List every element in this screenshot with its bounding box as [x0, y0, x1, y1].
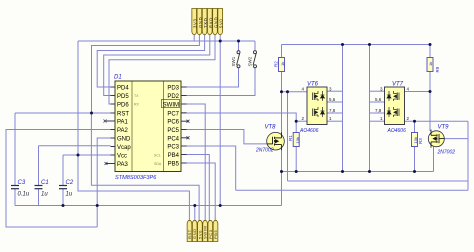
wire SW1 top lead	[238, 41, 240, 51]
wire R2 bottom lead	[281, 72, 283, 92]
wire R1 bottom lead	[295, 147, 297, 172]
wire VT7 pin3 stub	[370, 90, 385, 92]
wire PC7 line	[181, 113, 296, 121]
wire C1 lower lead	[38, 189, 40, 206]
node VT7 output bus	[368, 170, 371, 173]
IC left pin names	[117, 86, 131, 169]
connector XP1 top header	[192, 9, 224, 35]
svg-text:PC3: PC3	[167, 145, 179, 151]
svg-text:1u: 1u	[41, 192, 48, 198]
dual MOSFET VT7 AO4606	[385, 87, 405, 125]
svg-text:PC5: PC5	[167, 128, 179, 134]
pin PC6 no-connect cross	[187, 120, 190, 123]
svg-text:GND: GND	[117, 137, 131, 143]
svg-text:AO4606: AO4606	[299, 128, 319, 134]
resistor R9	[427, 58, 433, 72]
svg-text:STM8S003F3P6: STM8S003F3P6	[115, 175, 157, 181]
wire Vcap line C1	[39, 145, 111, 147]
node PA3 ground	[96, 204, 99, 207]
wire ground bus	[15, 205, 282, 207]
node VT7 supply tap	[368, 43, 371, 46]
capacitor C3	[11, 186, 19, 189]
wire VT9 gate column	[467, 121, 469, 190]
IC left pin stubs	[106, 87, 115, 164]
IC right pin stubs	[181, 87, 188, 163]
wire C1 upper lead	[38, 146, 40, 185]
wire VT6 pin2 stub	[296, 120, 307, 122]
wire C3 lower lead	[14, 189, 16, 206]
wire VT6 output stub 7-8	[327, 112, 343, 114]
svg-text:1u: 1u	[66, 192, 73, 198]
node header GND ground	[219, 204, 222, 207]
svg-text:10k: 10k	[295, 137, 300, 143]
wire VT6 pin1 stub	[327, 120, 343, 122]
wire Vcc descent to bottom connector pin3	[78, 155, 189, 223]
wire VT6 pin3 stub	[327, 90, 343, 92]
wire Vcc riser	[77, 41, 79, 155]
svg-text:TX: TX	[134, 94, 139, 98]
wire Vcc line C2	[63, 154, 111, 156]
wire PB5 descent to pin6	[181, 163, 215, 223]
wire top supply bus	[282, 44, 431, 46]
connector XP2 bottom header	[187, 220, 218, 241]
node VT6 supply tap	[341, 43, 344, 46]
pin PA1 no-connect cross	[104, 120, 107, 123]
wire VT8 source to ground bus	[281, 150, 283, 206]
wire VT6 output stub 5-6	[327, 101, 343, 103]
svg-text:PC7: PC7	[167, 111, 179, 117]
wire SW2 top lead	[254, 41, 256, 51]
wire W3 pin3 to PD4	[97, 35, 204, 87]
IC right pin names	[163, 86, 180, 168]
svg-text:SW1: SW1	[231, 56, 236, 66]
svg-text:SW2: SW2	[247, 56, 252, 66]
wire RST line	[15, 112, 111, 114]
svg-text:PB5: PB5	[213, 229, 218, 239]
svg-text:R9: R9	[435, 66, 440, 72]
dual MOSFET VT6 AO4606	[307, 87, 327, 125]
wire RST to bottom connector pin1	[91, 113, 199, 223]
wire gate line R2 to VT6 pin4	[282, 91, 308, 93]
svg-text:VT8: VT8	[265, 125, 277, 131]
svg-text:VT6: VT6	[307, 82, 319, 88]
wire C2 upper lead	[62, 155, 64, 185]
svg-text:C3: C3	[18, 180, 26, 186]
wire C3 riser	[14, 113, 16, 185]
svg-text:RST: RST	[117, 112, 129, 118]
wire VT7 output stub 5-6	[370, 101, 385, 103]
wire W1 pin1 to Vcc	[193, 35, 195, 41]
pin PC4 no-connect cross	[187, 136, 190, 139]
resistor R2	[279, 58, 285, 72]
svg-text:SCL: SCL	[154, 154, 161, 158]
wire bottom pin2 ground stub	[194, 206, 196, 224]
node VT8 source bus	[280, 170, 283, 173]
wire VT7 pin4 stub to R9 column	[404, 91, 430, 93]
wire R3 bottom lead	[414, 147, 416, 172]
VT7 N-FET symbol	[387, 107, 399, 117]
svg-text:D1: D1	[114, 75, 122, 81]
svg-text:PD5: PD5	[117, 94, 129, 100]
pin PA3 no-connect cross	[105, 162, 108, 165]
svg-text:Vcc: Vcc	[117, 154, 127, 160]
svg-text:7,8: 7,8	[375, 108, 382, 113]
wire VT9 gate lead	[445, 138, 469, 140]
svg-text:10k: 10k	[413, 137, 418, 143]
svg-text:PA1: PA1	[117, 120, 129, 126]
VT6 P-FET symbol	[313, 91, 325, 101]
svg-text:1k: 1k	[428, 62, 433, 66]
svg-text:SDA: SDA	[154, 162, 162, 166]
svg-text:RX: RX	[134, 103, 140, 107]
wire bus2 left riser	[287, 92, 289, 181]
VT6 N-FET symbol	[313, 107, 325, 117]
wire VT7 output stub 7-8	[370, 112, 385, 114]
svg-text:PB5: PB5	[168, 162, 180, 168]
wire W4 pin4 to PD5	[104, 35, 210, 96]
node R2 bottom	[280, 90, 283, 93]
svg-text:VT7: VT7	[392, 82, 404, 88]
node VT6 output bus	[341, 170, 344, 173]
svg-text:PD3: PD3	[167, 86, 179, 92]
node PC6 R1 junction	[295, 120, 298, 123]
wire SW2 bottom to PD2	[181, 68, 255, 96]
node bus2 tap	[286, 90, 289, 93]
svg-text:R3: R3	[418, 138, 423, 144]
wire R9 top lead	[429, 45, 431, 58]
wire pin6 down to ground bus	[219, 35, 221, 206]
svg-text:PB4: PB4	[168, 153, 180, 159]
node RST junction	[90, 112, 93, 115]
wire source bus1	[282, 171, 434, 173]
svg-text:PA2: PA2	[117, 128, 129, 134]
svg-text:2N7002: 2N7002	[437, 150, 456, 156]
wire SW1 bottom to PD3	[181, 68, 239, 87]
svg-text:PA3: PA3	[117, 162, 129, 168]
wire GND pin descent	[97, 138, 110, 227]
node R9 top	[429, 43, 432, 46]
wire PA2 wrap left edge	[6, 130, 111, 228]
resistor R3	[412, 133, 418, 147]
IC U1 STM8S003F3P6 body	[115, 81, 181, 172]
wire PC5 line	[181, 130, 267, 144]
wire VT7 column	[369, 45, 371, 172]
node C2 ground	[62, 204, 65, 207]
wire supply rail to switches	[78, 40, 255, 42]
node Vcc junction	[77, 154, 80, 157]
svg-text:5V0: 5V0	[219, 18, 224, 28]
svg-text:PD6: PD6	[117, 103, 129, 109]
node R9 bottom	[429, 90, 432, 93]
SWIM highlight box	[162, 100, 180, 108]
wire W5 pin5 to PD6	[109, 35, 215, 104]
svg-text:C1: C1	[41, 180, 49, 186]
node SW1 tap	[237, 40, 240, 43]
wire R1 top lead	[295, 121, 297, 132]
node R1 bottom bus	[295, 170, 298, 173]
svg-text:PC6: PC6	[167, 120, 179, 126]
svg-text:5,6: 5,6	[375, 97, 382, 102]
wire PB4 descent	[181, 155, 209, 224]
svg-text:VT9: VT9	[438, 125, 450, 131]
svg-text:5,6: 5,6	[329, 97, 336, 102]
wire bus2	[288, 180, 469, 182]
svg-text:7,8: 7,8	[329, 108, 336, 113]
node R3 bottom bus	[413, 170, 416, 173]
svg-text:1k: 1k	[280, 62, 285, 66]
wire R9 bottom lead and VT9 drain	[429, 72, 431, 132]
wire SWIM descent to pin4	[181, 104, 205, 223]
svg-text:Vcap: Vcap	[117, 145, 131, 151]
switch SW2	[253, 51, 256, 68]
wire VT8 drain riser	[281, 92, 283, 133]
VT7 P-FET symbol	[387, 91, 399, 101]
resistor R1	[293, 133, 299, 147]
wire C2 lower lead	[62, 189, 64, 206]
node pin6 junction	[219, 40, 222, 43]
svg-text:PC4: PC4	[167, 136, 179, 142]
capacitor C2	[59, 186, 67, 189]
transistor VT8 2N7002	[267, 132, 285, 150]
switch SW1	[237, 51, 240, 68]
svg-text:0.1u: 0.1u	[18, 192, 30, 198]
svg-text:2N7002: 2N7002	[255, 148, 274, 154]
wire PC3 to right gate bus	[181, 146, 236, 190]
svg-text:PD2: PD2	[167, 94, 179, 100]
wire R2 top lead	[281, 45, 283, 58]
wire VT7 pin1 stub	[370, 120, 385, 122]
wire PC3 bottom line	[236, 189, 468, 191]
svg-text:R1: R1	[288, 135, 293, 141]
node connector pin2 ground	[193, 204, 196, 207]
wire VT6 column	[342, 45, 344, 172]
node R3 top junction	[413, 120, 416, 123]
wire R3 top lead	[414, 121, 416, 132]
wire VT9 source lead	[433, 147, 435, 172]
capacitor C1	[35, 186, 43, 189]
wire VT7 pin2 line to gate node	[404, 120, 468, 122]
svg-text:AO4606: AO4606	[387, 128, 407, 134]
svg-text:PD4: PD4	[117, 86, 129, 92]
svg-text:R2: R2	[274, 61, 279, 67]
wire W2 pin2 to RST net	[92, 35, 200, 113]
svg-text:C2: C2	[66, 180, 74, 186]
transistor VT9 2N7002	[428, 130, 444, 148]
